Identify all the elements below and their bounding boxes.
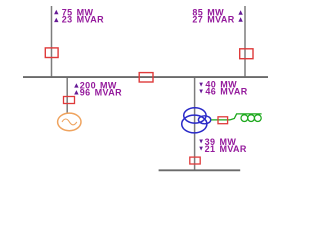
svg-text:46 MVAR: 46 MVAR [205, 87, 247, 97]
svg-text:23 MVAR: 23 MVAR [62, 15, 104, 25]
svg-text:27 MVAR: 27 MVAR [192, 15, 234, 25]
svg-text:96 MVAR: 96 MVAR [80, 88, 122, 98]
svg-text:21 MVAR: 21 MVAR [205, 144, 247, 154]
